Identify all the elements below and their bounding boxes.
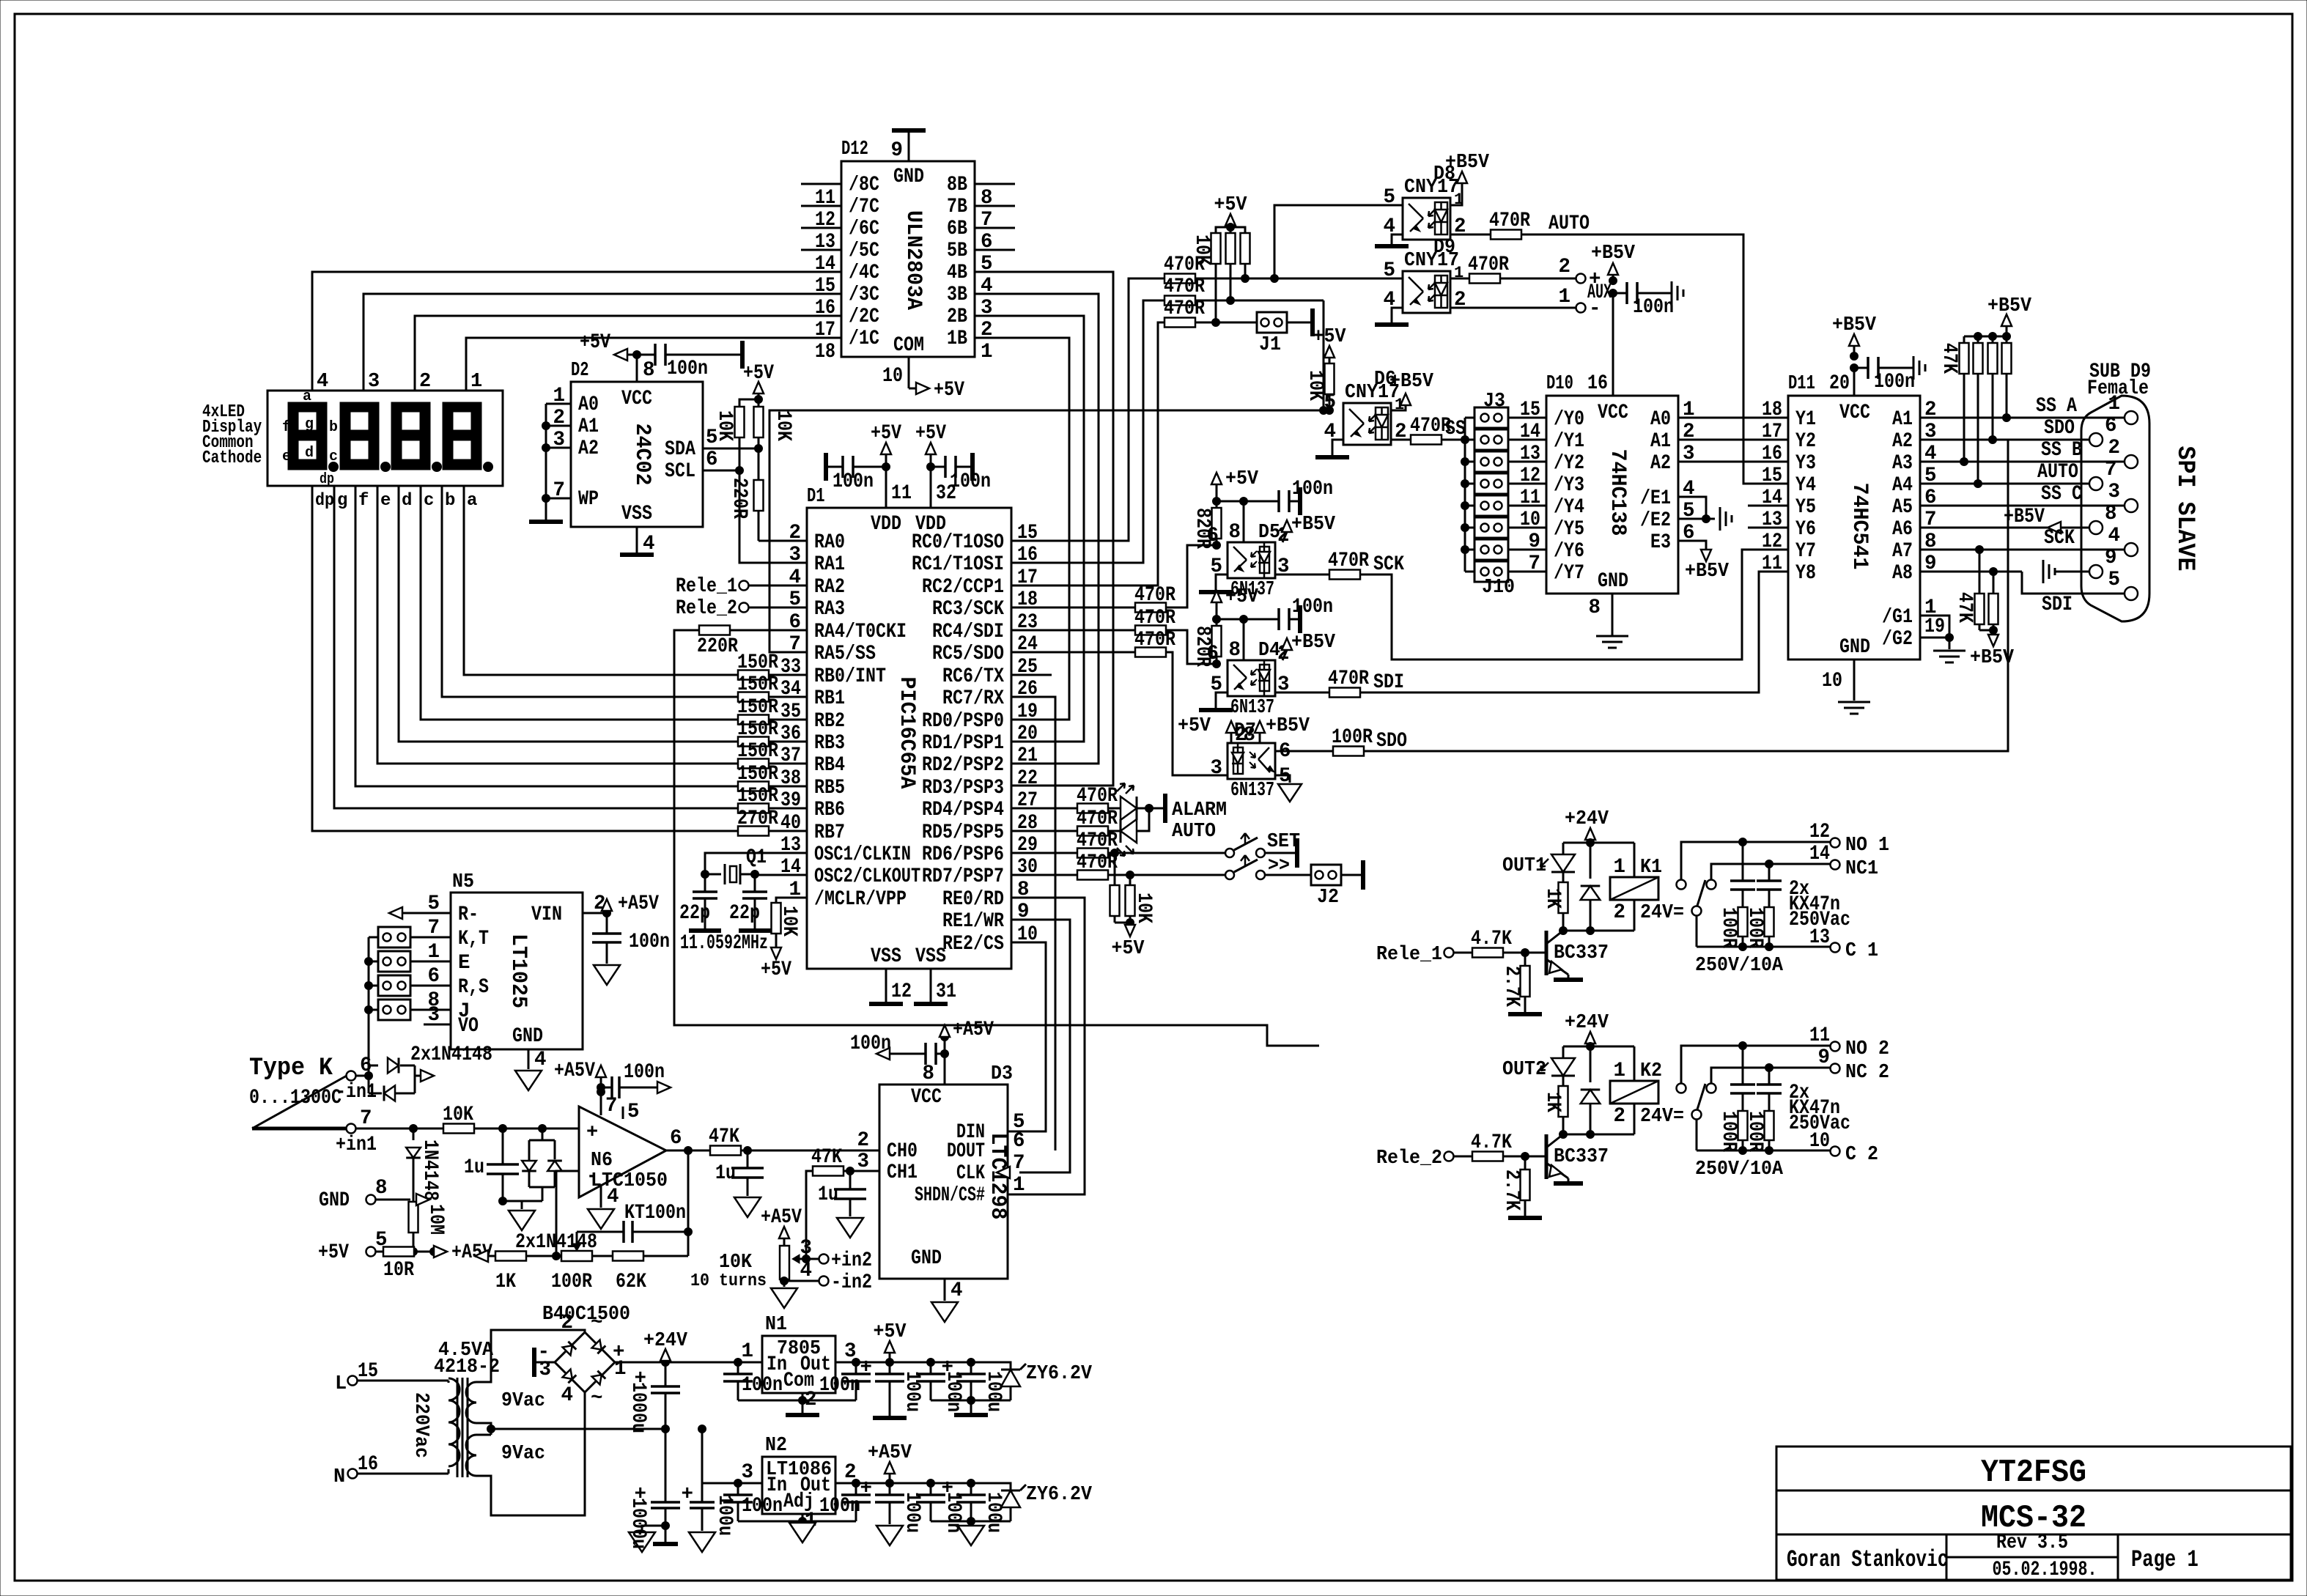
ULN2803A right pin 4 4B [947,262,993,298]
PIC left pin 2 RA0 [789,522,845,554]
LT1025 pin 7 K,T with jumper [378,917,489,950]
capacitor 100n at LTC1050 supply [601,1061,671,1098]
svg-text:15: 15 [1520,399,1540,421]
svg-text:J10: J10 [1482,577,1515,599]
resistor 150R (RB2) [737,696,807,725]
resistor 270R (RB7) [737,808,807,836]
svg-text:g: g [337,491,347,511]
+5V to 10R to +A5V [318,1229,492,1282]
svg-text:20: 20 [1829,372,1850,395]
D4 pin2 to +B5V [1282,632,1336,660]
wire display segment c to resistor row [421,486,738,720]
svg-text:18: 18 [815,341,835,363]
ULN2803A left pin 11 /8C [801,174,879,210]
resistor 47K at CH1 [806,1146,879,1259]
+5V node / 820R / 100n for D5 [1191,468,1333,550]
PIC left pin 5 RA3 [789,588,845,621]
svg-text:12: 12 [1762,531,1782,553]
LED ALARM (red) [1108,783,1153,820]
capacitor 1u at +input [464,1128,519,1201]
svg-text:A3: A3 [1892,452,1913,475]
wire -input to feedback [556,1171,579,1256]
svg-text:B40C1500: B40C1500 [542,1304,630,1326]
svg-text:+B5V: +B5V [2004,506,2045,528]
svg-text:3: 3 [789,544,801,566]
svg-text:Y6: Y6 [1795,518,1816,541]
svg-text:74HC138: 74HC138 [1605,449,1630,536]
svg-text:7: 7 [789,633,801,656]
svg-text:AUTO: AUTO [1549,213,1590,235]
svg-text:470R: 470R [1077,785,1118,808]
svg-text:RD3/PSP3: RD3/PSP3 [922,777,1004,799]
svg-text:d: d [402,491,412,511]
svg-text:+24V: +24V [643,1330,688,1352]
IC U-D12 ULN2803A box [841,161,975,357]
svg-text:22p: 22p [729,902,760,925]
wire display digit 4 common to ULN2803A pin 15 [312,272,841,391]
wire -in1 to clamp diodes [356,1075,369,1077]
svg-text:Rev 3.5: Rev 3.5 [1996,1532,2068,1554]
wire row3 to J1 [1195,322,1257,324]
LT1025 pin 3 VO [424,1004,479,1038]
LT1025 pin 6 R,S with jumper [378,965,489,999]
svg-text:6: 6 [706,448,718,471]
svg-text:AUTO: AUTO [2037,461,2078,484]
capacitor 100n at LT1025 VIN [592,913,670,985]
svg-text:RC4/SDI: RC4/SDI [932,621,1004,643]
svg-text:4: 4 [317,371,328,393]
74HC541 pin 15 Y4 [1762,465,1816,497]
74HC138 E3 to +B5V [1650,522,1730,583]
mains terminal L [335,1360,440,1395]
74HC541 pin 14 Y5 [1748,487,1816,519]
capacitor 1000u lower [627,1429,680,1552]
svg-text:8B: 8B [947,174,967,196]
svg-text:C 1: C 1 [1845,940,1878,962]
svg-text:16: 16 [1587,372,1608,395]
svg-text:0...1300C: 0...1300C [249,1087,342,1109]
svg-text:ALARM: ALARM [1172,799,1227,821]
svg-text:22: 22 [1017,767,1038,790]
svg-text:100u: 100u [982,1371,1005,1412]
svg-text:a: a [467,491,477,511]
svg-text:7: 7 [427,917,440,939]
svg-text:+B5V: +B5V [1591,243,1636,265]
svg-text:ULN2803A: ULN2803A [901,210,926,310]
svg-text:RC6/TX: RC6/TX [942,665,1004,688]
terminal NO 11 [1681,1024,1889,1083]
LTC1298 CLK input arrow [997,1167,1010,1178]
svg-text:D12: D12 [841,138,868,160]
svg-text:a: a [303,388,311,405]
svg-text:1K: 1K [1541,888,1564,909]
snubber capacitor KX47n #2 K1 [1757,864,1782,908]
74HC138 pin 13 /Y2 [1520,443,1584,475]
svg-text:250V/10A: 250V/10A [1695,955,1784,977]
Rele_1 net label at RA2 [676,575,807,598]
svg-text:7: 7 [1013,1152,1025,1175]
svg-text:1: 1 [741,1340,753,1363]
svg-text:SDI: SDI [2042,594,2072,616]
resistor 470R at PIC RD pin [1011,851,1118,880]
svg-text:PIC16C65A: PIC16C65A [894,677,919,789]
svg-text:2B: 2B [947,306,967,328]
svg-text:/Y1: /Y1 [1554,430,1584,453]
74HC541 pin 6 A5 [1892,487,2051,519]
+5V arrow for I2C pullups [743,362,774,404]
24C02 pin 7 WP [546,479,599,511]
LTC1050 pin7 stub to +A5V [554,1060,618,1117]
svg-text:VO: VO [458,1015,479,1038]
PIC left pin 40 RB7 [780,812,845,844]
svg-text:RA5/SS: RA5/SS [814,643,876,665]
svg-text:4.7K: 4.7K [1471,928,1512,950]
svg-text:/Y5: /Y5 [1554,518,1584,541]
svg-text:f: f [282,419,291,436]
svg-text:11: 11 [1762,553,1782,575]
PIC right pin 18 RC3/SCK [932,588,1038,621]
clamp bottom rail to analog ground [499,1197,543,1231]
svg-text:Y1: Y1 [1795,408,1816,431]
svg-text:+24V: +24V [1565,808,1609,830]
terminal NO 12 [1681,821,1889,879]
svg-text:11.0592MHz: 11.0592MHz [680,932,768,955]
display 7-segment digit 3 [340,402,391,472]
SUB D9 pin 3 [2108,481,2138,512]
transformer secondary 9Vac upper [466,1330,585,1423]
wire 24C02 address pins common rail to ground [529,404,563,522]
PIC right pin 9 RE1/WR [942,901,1030,933]
svg-text:47K: 47K [1953,592,1976,623]
ULN2803A right pin 5 5B [947,240,1015,276]
svg-text:19: 19 [1924,616,1945,638]
svg-text:RD2/PSP2: RD2/PSP2 [922,754,1004,777]
24C02 pin 6 SCL [665,448,739,483]
terminal C 13 [1809,926,1878,962]
svg-text:5: 5 [1383,186,1395,209]
svg-text:+24V: +24V [1565,1012,1609,1034]
resistor 470R at PIC RD pin [1011,808,1118,836]
svg-text:9Vac: 9Vac [501,1390,545,1412]
svg-text:100R: 100R [1743,907,1766,948]
ULN2803A GND pin 9 with ground bar [890,130,926,188]
svg-text:+B5V: +B5V [1685,561,1730,583]
74HC138 pin 2 A1 [1650,421,1788,453]
PIC left pin 37 RB4 [780,745,845,777]
thermocouple junction symbol [252,1076,347,1128]
svg-text:NO 1: NO 1 [1845,835,1889,857]
svg-text:100u: 100u [901,1371,923,1412]
svg-text:1K: 1K [495,1271,516,1293]
snubber resistor 100R #1 K2 [1717,1111,1748,1155]
svg-text:AUX: AUX [1587,281,1612,304]
svg-text:e: e [282,448,291,465]
jumper J10 [1465,561,1546,582]
svg-text:150R: 150R [737,740,778,763]
wire PIC RC pin to 470R pull network [1011,322,1164,585]
resistor 220R in SDA line to RA0 [728,448,807,541]
svg-text:RA2: RA2 [814,576,845,599]
capacitor 100n at N1 input [723,1362,783,1400]
svg-text:4: 4 [951,1279,963,1302]
74HC138 pin 12 /Y3 [1520,465,1584,497]
svg-text:R-: R- [458,904,479,926]
wire RE0 to LTC1298 SHDN/CS# [1008,898,1085,1194]
svg-text:10M: 10M [424,1204,447,1235]
svg-text:8: 8 [643,359,655,382]
PIC right pin 27 RD4/PSP4 [922,789,1038,821]
jumper rail from SS [1461,418,1469,572]
op-amp N6 LTC1050 triangle [579,1107,668,1197]
capacitor 100n filter at N1 output [890,1359,964,1413]
LTC1298 GND pin4 to analog ground [931,1279,958,1322]
SUB D9 pin 4 [2108,525,2138,556]
svg-text:OSC1/CLKIN: OSC1/CLKIN [814,843,911,866]
svg-text:+: + [941,1356,953,1379]
svg-text:2: 2 [1613,901,1625,924]
ULN2803A right pin 7 7B [947,196,1015,232]
svg-text:220R: 220R [697,635,738,658]
74HC138 VCC pin16 to +B5V with 100n [1587,243,1683,396]
IC D1 PIC16C65A box [807,508,1011,969]
capacitor 100u #2 at N1 output [931,1356,1011,1412]
svg-text:RE0/RD: RE0/RD [942,888,1004,911]
capacitor 100n at PIC VDD [931,453,991,493]
svg-text:100n: 100n [667,358,708,380]
SUB D9 pin 6 [2089,415,2117,446]
resistor 47K pull A8 [1989,568,1998,635]
snubber capacitor KX47n #1 K2 [1730,1046,1755,1112]
svg-text:RD6/PSP6: RD6/PSP6 [922,843,1004,866]
svg-text:A1: A1 [1650,430,1671,453]
svg-text:470R: 470R [1164,254,1205,276]
svg-text:K2: K2 [1640,1060,1662,1082]
jumper J1 [1257,309,1313,356]
74HC541 pin 8 A7 [1892,531,1937,563]
capacitor 100n at N2 input [723,1483,783,1521]
svg-text:+: + [586,1122,598,1144]
capacitor 100n at PIC VDD [826,453,886,493]
svg-text:+B5V: +B5V [1445,152,1490,174]
capacitor 100u #2 at N2 output [931,1477,1011,1533]
IC N2 LT1086 box [741,1435,856,1532]
zener diode ZY6.2V at N1 output [971,1362,1093,1400]
resistor 470R AUTO output from D8 [1450,210,1530,240]
PIC left pin 34 RB1 [780,678,845,710]
D8 pin1 to +B5V [1445,152,1490,205]
svg-text:1u: 1u [464,1156,484,1179]
clamp diode pair 2x1N4148 at +input [515,1128,597,1254]
svg-text:37: 37 [780,745,801,767]
svg-text:5: 5 [1383,259,1395,282]
svg-text:/8C: /8C [849,174,879,196]
svg-text:CLK: CLK [956,1162,985,1185]
wire row1 to D8 pin5 and D9 pin5 [1195,205,1403,283]
svg-text:VSS: VSS [621,503,652,525]
resistor 470R at PIC RD pin [1011,785,1118,813]
svg-text:10K: 10K [1304,370,1326,401]
wire/label SS C to pin3 [1920,483,2125,506]
zener diode ZY6.2V at N2 output [971,1483,1093,1521]
svg-text:RD4/PSP4: RD4/PSP4 [922,799,1004,821]
svg-text:100R: 100R [551,1271,592,1293]
+24V arrow for K2 [1565,1012,1609,1051]
svg-text:7B: 7B [947,196,967,218]
svg-text:RC2/CCP1: RC2/CCP1 [922,576,1004,599]
svg-text:3: 3 [857,1150,869,1173]
LTC1298 VCC pin8 with 100n and +A5V [850,1019,994,1085]
svg-text:8: 8 [1228,639,1241,662]
svg-text:14: 14 [815,253,835,276]
svg-text:YT2FSG: YT2FSG [1981,1455,2086,1491]
svg-text:6: 6 [670,1127,682,1150]
svg-text:6N137: 6N137 [1230,780,1274,802]
ULN2803A left pin 14 /5C [801,240,879,276]
resistor 470R at PIC RC pin [1011,629,1175,657]
IC N5 LT1025 box [451,893,583,1049]
svg-text:/G1: /G1 [1882,606,1913,629]
svg-text:100n: 100n [629,931,670,953]
PIC left pin 35 RB2 [780,701,845,733]
snubber capacitor KX47n #2 K2 [1757,1068,1782,1112]
100R pot wiper from KT100n [572,1232,581,1251]
PIC VDD pin stub with +5V arrow [871,422,901,508]
svg-text:100R: 100R [1332,726,1373,749]
24C02 pin 3 A2 [546,429,599,460]
svg-text:RB4: RB4 [814,754,845,777]
optocoupler D9 CNY17 [1383,237,1466,313]
svg-text:D10: D10 [1546,373,1573,395]
svg-text:J1: J1 [1259,334,1281,356]
svg-text:100n: 100n [819,1374,860,1397]
ULN2803A right pin 6 6B [947,218,1015,254]
svg-text:GND: GND [911,1247,942,1270]
resistor 1K for OUT1 LED [1541,872,1568,935]
+5V arrow for 10K bank [1214,194,1248,232]
snubber resistor 100R #2 K1 [1743,907,1774,951]
svg-text:1u: 1u [715,1162,736,1185]
svg-text:+in2: +in2 [831,1249,872,1272]
svg-text:150R: 150R [737,651,778,674]
jumper J3 block row 4 [1465,473,1546,494]
resistor 10K pullup 3 [1230,227,1250,283]
svg-text:+B5V: +B5V [1389,371,1434,393]
D5 pin2 to +B5V [1282,514,1336,542]
svg-text:150R: 150R [737,763,778,786]
svg-text:A2: A2 [1892,430,1913,453]
resistor 470R at PIC RC pin [1011,584,1175,613]
svg-text:/3C: /3C [849,284,879,306]
wire PIC RC pin to 470R pull network [1011,278,1164,541]
LTC1050 pin4 to analog ground [588,1186,619,1229]
svg-text:LT1025: LT1025 [506,934,531,1008]
svg-text:5: 5 [627,1101,640,1123]
svg-text:20: 20 [1017,723,1038,745]
wire 0V rail to N2 In [698,1425,763,1488]
IC D2 24C02 box [571,382,703,527]
svg-text:2: 2 [1613,1105,1625,1128]
display 7-segment digit 4 [288,402,339,472]
svg-text:/Y3: /Y3 [1554,474,1584,497]
svg-text:10K: 10K [719,1252,753,1274]
relay K2 coil [1610,1046,1684,1134]
svg-text:74HC541: 74HC541 [1847,483,1872,570]
svg-text:+B5V: +B5V [1291,514,1336,536]
svg-text:10K: 10K [1132,893,1155,923]
svg-text:100R: 100R [1717,1111,1740,1152]
svg-text:14: 14 [1520,421,1540,443]
svg-text:15: 15 [815,275,835,298]
wire/label SS B to pin2 [1920,439,2125,462]
wire/label AUTO to pin7 [1920,461,2090,484]
svg-text:+A5V: +A5V [953,1019,994,1041]
svg-text:Type K: Type K [249,1054,333,1082]
svg-text:GND: GND [1598,570,1628,593]
svg-text:Y3: Y3 [1795,452,1816,475]
svg-text:A7: A7 [1892,540,1913,563]
svg-text:SCK: SCK [2044,527,2075,550]
terminal NC 9 [1711,1046,1889,1084]
svg-text:RD7/PSP7: RD7/PSP7 [922,865,1004,888]
wire PIC RC7/RX to LTC1298 DOUT [1011,697,1055,1150]
resistor 150R (RB1) [737,673,807,702]
svg-text:+5V: +5V [761,958,791,981]
PIC left pin 1 /MCLR/VPP [789,879,907,911]
wire RC4 470R to D4 output [1166,630,1217,664]
svg-text:SCL: SCL [665,460,695,483]
capacitor 1000u upper [627,1362,680,1433]
svg-text:RB7: RB7 [814,821,845,844]
svg-text:J3: J3 [1483,391,1505,413]
PIC right pin 16 RC1/T1OSI [912,544,1038,576]
svg-text:RA4/T0CKI: RA4/T0CKI [814,621,907,643]
svg-text:16: 16 [815,297,835,319]
svg-text:+: + [681,1483,693,1506]
pin9 to earth [2043,560,2089,583]
svg-text:dp: dp [315,491,334,511]
LED OUT2 [1502,1046,1575,1081]
svg-text:SS C: SS C [2041,483,2082,506]
svg-text:1: 1 [427,941,440,964]
svg-text:+A5V: +A5V [554,1060,595,1082]
AUX + terminal [1558,256,1601,291]
+24V arrow at rectifier output [643,1330,688,1362]
svg-text:+B5V: +B5V [1987,295,2032,317]
svg-text:100n: 100n [742,1495,783,1518]
svg-text:SDI: SDI [1373,671,1404,694]
+5V down arrow for button pulls [1112,923,1145,960]
resistor 470R row3 (SS/J1) [1164,298,1205,328]
svg-text:10: 10 [1809,1130,1830,1153]
resistor 220R (RA4) [697,626,807,659]
svg-text:N: N [333,1466,345,1488]
svg-text:R,S: R,S [458,976,489,999]
svg-text:4B: 4B [947,262,967,284]
svg-text:SHDN/CS#: SHDN/CS# [915,1184,985,1207]
GND input terminal [319,1177,429,1212]
svg-text:7: 7 [1528,553,1540,575]
svg-text:/MCLR/VPP: /MCLR/VPP [814,888,907,911]
74HC541 pin 4 A3 [1892,443,1937,475]
svg-text:AUTO: AUTO [1172,821,1216,843]
wire SDI to 74HC541 Y8 [1360,572,1788,692]
resistor 470R row2 [1164,276,1205,306]
resistor 100R SDO from D7 pin6 [1275,726,1373,756]
74HC541 pin 3 A2 [1892,421,1937,453]
resistor 10K pullup for SS at D6 [1304,326,1346,415]
svg-text:470R: 470R [1328,668,1369,690]
svg-text:b: b [329,419,338,436]
